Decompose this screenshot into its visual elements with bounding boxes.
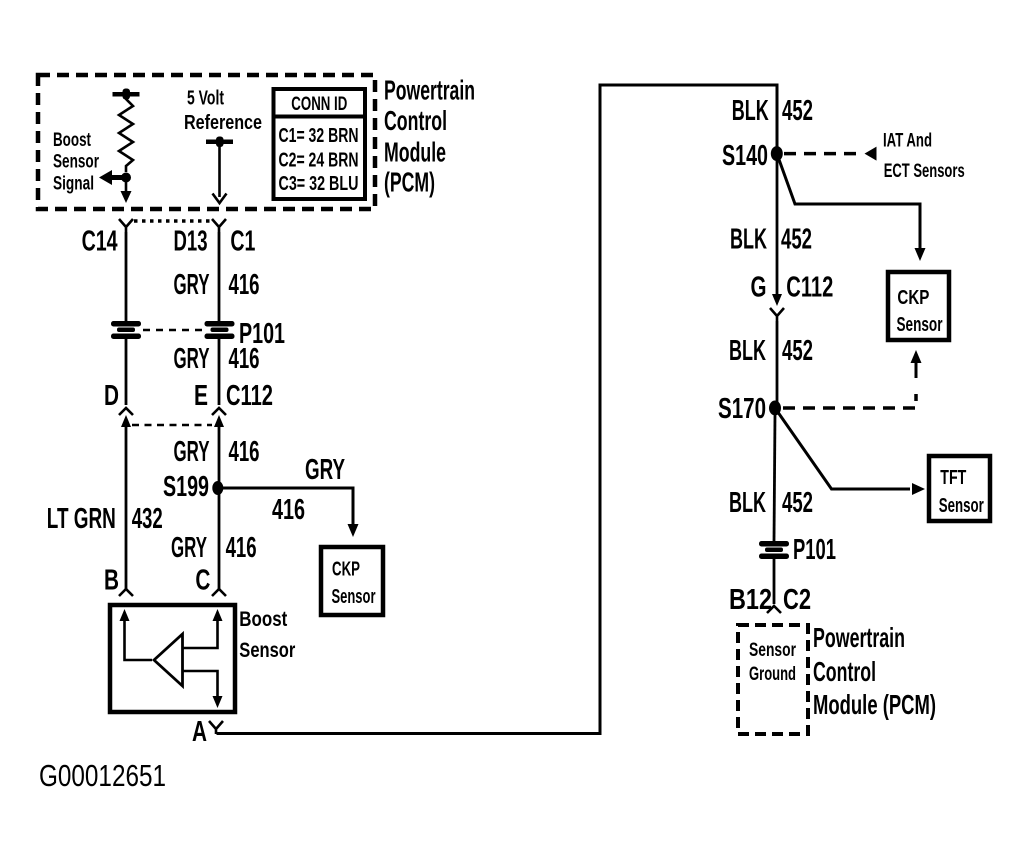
wire: BLK 452 S170 to P101 bbox=[774, 414, 775, 541]
wire: boost signal below grommet bbox=[125, 339, 128, 405]
resistor: boost signal pull-up bbox=[119, 96, 133, 172]
wire: sensor ground return run (A to PCM right) bbox=[217, 85, 778, 734]
svg-text:Module (PCM): Module (PCM) bbox=[813, 689, 936, 720]
svg-text:D13: D13 bbox=[174, 225, 208, 257]
svg-text:BLK: BLK bbox=[729, 487, 766, 519]
svg-text:(PCM): (PCM) bbox=[384, 167, 435, 198]
wire: signal output down arrow bbox=[125, 178, 128, 194]
svg-text:GRY: GRY bbox=[174, 343, 210, 375]
wire: S199 branch to CKP sensor GRY 416 bbox=[219, 488, 353, 527]
svg-text:Sensor: Sensor bbox=[239, 639, 295, 662]
svg-text:452: 452 bbox=[782, 487, 813, 519]
connector table CONN ID bbox=[274, 89, 366, 199]
svg-text:5 Volt: 5 Volt bbox=[187, 88, 224, 110]
svg-text:GRY: GRY bbox=[174, 269, 210, 301]
connector C2 pin B12 terminal bbox=[767, 606, 781, 613]
connector C112 pin D (female half) bbox=[119, 408, 133, 415]
connector pin A terminal (female) bbox=[209, 721, 223, 734]
svg-text:Sensor: Sensor bbox=[749, 640, 796, 661]
svg-text:C1: C1 bbox=[230, 225, 255, 257]
boost sensor internal wire B (arrow up) bbox=[120, 609, 130, 621]
connector C112 pin E (female half) bbox=[212, 408, 226, 415]
svg-text:Powertrain: Powertrain bbox=[813, 622, 905, 653]
svg-text:S170: S170 bbox=[718, 393, 766, 425]
wire: boost signal LT GRN (upper segment) bbox=[125, 232, 128, 321]
dashed reference: S170 to CKP sensor bbox=[783, 394, 916, 408]
wire: 5V ref below grommet GRY 416 bbox=[218, 339, 221, 405]
grommet P101 (left wire) bbox=[111, 321, 141, 327]
svg-text:Reference: Reference bbox=[184, 112, 262, 134]
connector C112 male terminal E (arrow) bbox=[214, 415, 224, 427]
connector C112 pin G (male arrow) bbox=[772, 294, 782, 306]
boost sensor pin C terminal bbox=[212, 589, 226, 596]
svg-text:BLK: BLK bbox=[730, 223, 767, 255]
svg-text:GRY: GRY bbox=[171, 532, 207, 564]
svg-text:S140: S140 bbox=[722, 140, 768, 172]
svg-text:C3= 32 BLU: C3= 32 BLU bbox=[279, 173, 359, 195]
dotted connector tie C14-C1 bbox=[134, 219, 212, 223]
svg-text:Control: Control bbox=[813, 656, 876, 687]
svg-text:C112: C112 bbox=[786, 272, 833, 304]
wire: GRY 416 below S199 bbox=[218, 494, 221, 589]
connector C1 terminal pin D13 (female) bbox=[212, 219, 226, 232]
component: CKP Sensor (left box) bbox=[321, 547, 383, 615]
svg-text:C14: C14 bbox=[82, 225, 118, 257]
grommet P101 (right) bbox=[759, 541, 789, 547]
svg-text:416: 416 bbox=[229, 269, 260, 301]
wire: P101 to PCM C2 bbox=[773, 559, 776, 604]
svg-text:CKP: CKP bbox=[332, 559, 360, 581]
boost sensor internal wire A (arrow down) bbox=[183, 671, 218, 697]
op-amp: boost sensor amplifier triangle bbox=[154, 634, 183, 686]
svg-text:LT GRN: LT GRN bbox=[47, 503, 116, 535]
svg-text:C2: C2 bbox=[783, 584, 811, 616]
component: TFT Sensor box bbox=[929, 456, 990, 521]
svg-text:416: 416 bbox=[229, 436, 260, 468]
wire: S140 branch to CKP sensor bbox=[777, 154, 920, 250]
boost sensor internal wire C (arrow up) bbox=[213, 609, 223, 621]
svg-text:Sensor: Sensor bbox=[53, 152, 99, 173]
grommet P101 (5V wire) bbox=[205, 321, 235, 327]
svg-text:D: D bbox=[104, 380, 119, 412]
svg-text:Sensor: Sensor bbox=[939, 495, 984, 517]
connector C112 pin G (female half) bbox=[770, 308, 784, 321]
svg-text:C: C bbox=[195, 565, 210, 597]
svg-text:452: 452 bbox=[782, 335, 813, 367]
svg-text:Signal: Signal bbox=[53, 174, 94, 195]
svg-text:GRY: GRY bbox=[174, 436, 210, 468]
svg-text:Boost: Boost bbox=[53, 130, 91, 151]
svg-text:452: 452 bbox=[782, 95, 813, 127]
connector C112 male terminal D (arrow) bbox=[121, 415, 131, 427]
splice S170 bbox=[769, 401, 781, 416]
svg-text:CONN ID: CONN ID bbox=[291, 94, 347, 115]
svg-text:TFT: TFT bbox=[940, 467, 966, 489]
svg-text:E: E bbox=[194, 380, 208, 412]
wire: boost sensor signal arrow (left) bbox=[109, 175, 126, 180]
svg-text:S199: S199 bbox=[163, 471, 209, 503]
svg-text:C2= 24 BRN: C2= 24 BRN bbox=[279, 150, 359, 172]
svg-text:A: A bbox=[192, 716, 207, 748]
svg-text:B12: B12 bbox=[729, 584, 772, 616]
wire: BLK 452 C112 to S170 bbox=[776, 321, 779, 402]
svg-text:416: 416 bbox=[272, 494, 305, 526]
wire: 5V ref GRY 416 (upper segment) bbox=[218, 232, 221, 321]
svg-text:Ground: Ground bbox=[749, 664, 796, 685]
splice S199 bbox=[212, 481, 223, 495]
splice S140 bbox=[771, 146, 783, 161]
svg-text:ECT Sensors: ECT Sensors bbox=[884, 161, 965, 182]
wire: S170 branch to TFT sensor bbox=[775, 408, 910, 489]
svg-text:GRY: GRY bbox=[305, 454, 345, 486]
svg-text:G: G bbox=[751, 272, 767, 304]
node: resistor top tie bar bbox=[113, 92, 140, 97]
dashed grommet tie line bbox=[143, 329, 203, 332]
svg-text:416: 416 bbox=[226, 532, 257, 564]
svg-text:Powertrain: Powertrain bbox=[384, 75, 475, 106]
svg-text:Control: Control bbox=[384, 105, 447, 136]
svg-text:Sensor: Sensor bbox=[332, 586, 376, 608]
dashed connector tie D-E bbox=[132, 424, 212, 427]
svg-text:BLK: BLK bbox=[729, 335, 766, 367]
svg-text:B: B bbox=[104, 565, 119, 597]
svg-text:452: 452 bbox=[781, 223, 812, 255]
svg-text:CKP: CKP bbox=[897, 287, 929, 309]
boost sensor pin B terminal bbox=[119, 589, 133, 596]
svg-text:P101: P101 bbox=[793, 534, 836, 566]
svg-text:Module: Module bbox=[384, 137, 446, 168]
svg-text:C112: C112 bbox=[226, 380, 273, 412]
node: resistor bottom junction bbox=[121, 173, 131, 183]
component: CKP Sensor (right box) bbox=[888, 272, 949, 340]
wire: 5 volt reference supply bbox=[206, 140, 233, 145]
svg-text:432: 432 bbox=[132, 503, 163, 535]
svg-text:IAT And: IAT And bbox=[883, 131, 932, 152]
svg-text:Boost: Boost bbox=[239, 608, 287, 631]
svg-text:416: 416 bbox=[229, 343, 260, 375]
PCM module dashed outline box bbox=[38, 75, 375, 209]
svg-text:BLK: BLK bbox=[732, 95, 769, 127]
ground: Sensor Ground dashed box bbox=[738, 625, 808, 734]
dashed reference: S140 to IAT/ECT sensors bbox=[784, 152, 862, 156]
svg-text:G00012651: G00012651 bbox=[39, 758, 166, 793]
connector C14 terminal (female) bbox=[119, 219, 133, 232]
svg-text:Sensor: Sensor bbox=[897, 314, 943, 336]
component: Boost Sensor bbox=[110, 605, 235, 712]
wire: BLK 452 S140 to C112 bbox=[776, 160, 779, 296]
svg-text:C1= 32 BRN: C1= 32 BRN bbox=[279, 125, 359, 147]
